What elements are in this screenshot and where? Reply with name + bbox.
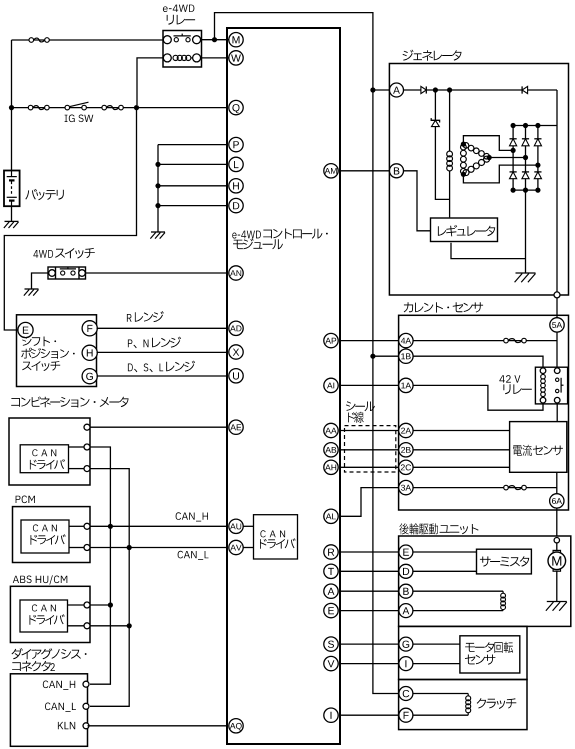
wire F to AD <box>97 327 228 329</box>
terminal rear unit F <box>399 708 413 722</box>
wire AL to 3A <box>340 488 399 517</box>
wire H branch <box>158 185 228 187</box>
wire battery to ground <box>11 206 13 221</box>
terminal rear unit G <box>399 637 413 651</box>
node stator vertex top <box>461 142 466 147</box>
wire A internal <box>404 89 558 91</box>
node bridge mid 1 <box>510 148 515 153</box>
wire module to rear unit V-I <box>340 663 399 665</box>
fuse current sensor F5 <box>504 485 527 490</box>
node gen rotor junction <box>447 87 452 92</box>
label P N range <box>128 337 181 349</box>
wire relay coil to W <box>202 57 229 59</box>
wire 2A internal <box>413 430 510 432</box>
wire stator phase2 to bridge <box>489 157 525 159</box>
wire D branch <box>158 205 228 207</box>
terminal 2B <box>399 443 413 457</box>
wire regulator to ground rail <box>451 243 526 259</box>
label diag CAN_L <box>45 703 76 712</box>
wire AI to 1A <box>340 384 399 386</box>
terminal F shift <box>82 321 97 336</box>
terminal motor feed circle <box>554 538 559 543</box>
wire L branch <box>158 163 228 165</box>
wire generator to 5A <box>556 298 558 318</box>
relay 42V coil <box>541 374 546 396</box>
label clutch <box>477 698 517 709</box>
node ABS CAN-L junction <box>127 623 132 628</box>
label diagnosis line2 <box>12 661 55 672</box>
label generator <box>403 50 462 61</box>
label CAN ABS <box>32 604 56 611</box>
wire A internal rear <box>413 610 503 612</box>
wire module to rear unit S-G <box>340 643 399 645</box>
wire PCM CAN-L stub <box>69 547 84 549</box>
terminal meter CAN-L <box>84 466 90 472</box>
label module line2 <box>233 238 283 249</box>
wire G to U <box>97 375 228 377</box>
terminal rear unit D <box>399 564 413 578</box>
relay 42V contact <box>556 378 564 393</box>
wire module to rear unit T-D <box>340 570 399 572</box>
wire AP to 4A <box>340 340 399 342</box>
shield wire dashed box <box>345 426 396 472</box>
fuse F2 <box>28 105 49 110</box>
label shift line2 <box>21 348 74 359</box>
label module line1 <box>232 229 327 239</box>
relay 42V box <box>535 367 567 404</box>
wire ABS CAN-L stub <box>68 625 85 627</box>
inductor stator coil 3-1 <box>461 144 467 174</box>
wire generator right rail <box>556 90 558 292</box>
label CAN meter <box>32 449 56 456</box>
wire ABS CAN-H to bus <box>90 604 110 606</box>
terminal diag KLN <box>83 723 89 729</box>
regulator box <box>431 218 498 242</box>
terminal module D <box>229 198 243 212</box>
node CAN-H bus junction <box>108 524 113 529</box>
wire motor feed <box>556 543 558 550</box>
label diagnosis line1 <box>12 648 87 659</box>
wire bridge to ground <box>525 190 527 273</box>
wire junction to A terminal <box>373 89 390 91</box>
battery plates <box>7 171 17 207</box>
terminal rear unit I <box>399 657 413 671</box>
terminal module AL <box>324 509 338 523</box>
wire F internal <box>413 714 468 716</box>
label shield line2 <box>348 412 364 423</box>
wire E to thermistor <box>413 551 476 553</box>
motor M brushes <box>553 550 560 571</box>
wire PCM CAN-L to AV <box>90 547 228 549</box>
terminal module Q <box>229 100 243 114</box>
terminal module V <box>324 656 338 670</box>
terminal module AE <box>229 420 243 434</box>
wire 5A rail to relay <box>556 332 558 367</box>
terminal PCM CAN-L <box>84 545 90 551</box>
terminal module AD <box>229 321 243 335</box>
label shield line1 <box>346 401 375 411</box>
terminal generator A <box>390 83 404 97</box>
wire zener branch <box>435 90 449 199</box>
label driver meter <box>30 459 65 469</box>
label current sensor <box>404 302 483 312</box>
relay 42V terminals <box>540 368 560 403</box>
wire PCM CAN-H to AU <box>90 525 228 527</box>
label shift line3 <box>22 361 60 371</box>
terminal 2C <box>399 460 413 474</box>
terminal H shift <box>82 345 97 360</box>
terminal module P <box>229 137 243 151</box>
rear drive unit box middle <box>399 626 527 679</box>
wire G to rotation sensor <box>413 643 460 645</box>
wire ABS CAN-H stub <box>68 604 85 606</box>
terminal module A <box>324 584 338 598</box>
battery box <box>4 171 20 207</box>
label e-4WD relay line2 <box>167 15 195 25</box>
label e-4WD relay line1 <box>163 5 195 12</box>
inductor clutch coil <box>466 694 471 716</box>
terminal 5A <box>550 318 564 332</box>
CAN driver box ABS <box>20 600 68 632</box>
node bridge top 2 <box>523 123 528 128</box>
node 1B junction <box>370 354 375 359</box>
current sensor unit box <box>510 422 567 473</box>
node relay-M junction <box>212 37 217 42</box>
node L junction <box>155 162 160 167</box>
wire bridge bottom bus <box>513 189 538 191</box>
wire AV to CAN driver <box>243 547 253 549</box>
diagnosis connector box <box>10 674 87 747</box>
terminal module AP <box>324 333 338 347</box>
wire KLN to AQ <box>88 725 228 727</box>
wire top link M to generator A <box>215 13 373 88</box>
diode generator D1 <box>421 86 426 93</box>
ground 4WD switch <box>24 289 39 296</box>
ABS box <box>10 586 90 642</box>
terminal module AH <box>324 460 338 474</box>
wire 1A internal <box>413 385 543 410</box>
terminal module I <box>324 708 338 722</box>
ground generator <box>515 273 536 282</box>
relay K1 e-4WD box <box>163 31 202 68</box>
node IG junction to module Q <box>134 105 139 110</box>
wire AU to CAN driver <box>243 525 253 527</box>
inductor rotor field coil <box>447 151 453 171</box>
terminal rear unit B <box>399 584 413 598</box>
label 4WD switch <box>33 248 94 259</box>
wire 1B internal <box>413 356 543 367</box>
wire AB to 2B <box>340 449 399 451</box>
terminal rear unit C <box>399 687 413 701</box>
rear drive unit box upper <box>399 536 571 626</box>
wire motor to ground <box>556 571 558 601</box>
wire ground bus vertical <box>157 145 159 232</box>
motor rotation sensor box <box>460 636 520 673</box>
terminal ABS CAN-H <box>84 602 90 608</box>
label 42V relay line2 <box>503 384 531 394</box>
terminal module T <box>324 564 338 578</box>
node gen zener junction <box>433 87 438 92</box>
switch 4WD contacts <box>49 267 86 277</box>
inductor rear unit winding <box>501 591 506 610</box>
node generator A junction <box>370 87 375 92</box>
terminal module M <box>229 33 243 47</box>
wire 4WD switch to ground <box>32 273 49 289</box>
wire module to rear unit E-A <box>340 610 399 612</box>
terminal module R <box>324 545 338 559</box>
terminal meter CAN-H <box>84 444 90 450</box>
wire rotor branch lower <box>449 171 451 218</box>
label shift line1 <box>22 337 56 347</box>
wire C internal <box>413 693 468 695</box>
wire sensor unit to 6A <box>556 472 558 493</box>
node H junction <box>155 183 160 188</box>
wire AM to B <box>340 170 389 172</box>
relay K1 coil <box>163 54 200 62</box>
wire top feed to relay <box>12 39 164 41</box>
diode zener ZD <box>431 118 439 127</box>
motor M <box>548 552 566 570</box>
node stator vertex right <box>487 155 492 160</box>
terminal PCM CAN-H <box>84 523 90 529</box>
node bridge top 3 <box>535 123 540 128</box>
terminal module L <box>229 157 243 171</box>
terminal module AM <box>324 164 338 178</box>
switch shift position box <box>17 315 97 387</box>
wire meter CAN-L stub <box>69 468 84 470</box>
ground PLHD bus <box>150 232 165 239</box>
switch IG SW contacts <box>65 102 89 110</box>
label R range <box>127 311 164 322</box>
terminal rear unit E <box>399 545 413 559</box>
terminal 4A <box>399 333 413 347</box>
wire meter CAN-H to bus <box>90 447 110 684</box>
wire stator phase3 to bridge <box>463 165 538 183</box>
inductor stator coil 2-3 <box>463 156 490 175</box>
label CAN module <box>260 530 285 537</box>
label current sensor unit <box>513 445 563 456</box>
wire AH to 2C <box>340 466 399 468</box>
node bridge bottom 2 <box>523 188 528 193</box>
label PCM <box>16 496 35 504</box>
wire ABS CAN-L to bus <box>90 625 129 627</box>
wire D to thermistor <box>413 570 476 572</box>
label diag CAN_H <box>43 681 75 690</box>
label D S L range <box>128 361 195 373</box>
CAN driver box meter <box>20 445 68 473</box>
terminal rear unit A <box>399 604 413 618</box>
wire 2B internal <box>413 449 510 451</box>
label driver PCM <box>31 534 66 544</box>
wire B to regulator <box>404 171 431 231</box>
terminal diag CAN-L <box>83 703 89 709</box>
terminal 6A <box>550 494 564 508</box>
terminal module U <box>229 369 243 383</box>
wire 6A to motor <box>556 508 558 536</box>
label ABS <box>13 575 68 584</box>
wire module to rear unit A-B <box>340 590 399 592</box>
CAN driver box PCM <box>21 520 69 553</box>
wire bridge column 1 <box>512 126 514 191</box>
wire rotor branch upper <box>449 90 451 152</box>
rear drive unit box lower <box>399 680 527 730</box>
wire 4A internal <box>413 340 557 342</box>
terminal module AI <box>324 378 338 392</box>
terminal G shift <box>82 369 97 384</box>
wire IG SW row <box>12 107 228 109</box>
PCM box <box>13 507 91 563</box>
inductor stator coil 1-2 <box>463 143 489 159</box>
label thermistor <box>480 556 529 566</box>
diode bridge lower 1 <box>510 172 517 179</box>
label CAN_H <box>176 512 208 521</box>
wire relay coil to IG junction <box>137 58 163 105</box>
terminal module W <box>229 51 243 65</box>
node battery-IG junction <box>9 105 14 110</box>
wire 3A internal <box>413 487 557 489</box>
label rotation sensor line1 <box>465 642 513 653</box>
wire H to X <box>97 351 228 353</box>
wire B internal <box>413 590 503 592</box>
terminal 3A <box>399 480 413 494</box>
node CAN-L bus junction <box>127 545 132 550</box>
diode bridge lower 2 <box>522 172 529 179</box>
wire bridge column 3 <box>537 126 539 191</box>
terminal 1B <box>399 349 413 363</box>
terminal meter AE <box>84 424 90 430</box>
label diag KLN <box>58 722 75 729</box>
current sensor box <box>399 315 569 510</box>
ground motor <box>546 602 567 611</box>
wire module to rear unit R-E <box>340 551 399 553</box>
terminal generator output circle <box>554 292 560 298</box>
wire bridge top bus <box>513 125 557 127</box>
node D junction <box>155 203 160 208</box>
label rear drive unit <box>399 523 478 534</box>
node bridge top 1 <box>510 123 515 128</box>
diode bridge upper 2 <box>522 139 529 146</box>
wire IG junction down to shift E <box>4 108 136 330</box>
node stator vertex bottom <box>461 172 466 177</box>
wire meter CAN-L to bus <box>90 469 129 707</box>
label 42V relay line1 <box>499 375 520 383</box>
wire I to rotation sensor <box>413 663 460 665</box>
label driver module <box>260 538 296 548</box>
node bridge bottom 1 <box>510 188 515 193</box>
thermistor box <box>477 549 532 574</box>
terminal E shift <box>18 322 33 337</box>
terminal module E <box>324 603 338 617</box>
wire long vertical bus to clutch C <box>373 90 400 694</box>
wire meter CAN-H stub <box>69 446 84 448</box>
relay K1 contact <box>163 34 200 44</box>
wire stator phase1 to bridge <box>463 136 513 151</box>
generator box <box>389 64 568 296</box>
fuse current sensor F4 <box>504 338 527 343</box>
wire module to rear unit I-F <box>340 714 399 716</box>
module e-4WD control box <box>227 28 340 744</box>
terminal module H <box>229 179 243 193</box>
terminal module AQ <box>229 719 243 733</box>
ground battery <box>4 221 19 228</box>
diode generator D2 <box>522 86 528 93</box>
fuse F3 <box>102 105 123 110</box>
terminal module AB <box>324 443 338 457</box>
wire bridge column 2 <box>525 126 527 191</box>
terminal module AU <box>229 519 243 533</box>
wire PCM CAN-H stub <box>69 525 84 527</box>
label driver ABS <box>30 614 65 624</box>
node bridge mid 2 <box>523 155 528 160</box>
wire relay contact to M <box>202 39 229 41</box>
label IG SW <box>65 115 94 123</box>
wire P to ground bus <box>158 144 228 146</box>
wire AA to 2A <box>340 430 399 432</box>
terminal diag CAN-H <box>83 681 89 687</box>
terminal 1A <box>399 378 413 392</box>
wire 1B to bus <box>373 355 399 357</box>
wire meter to AE <box>90 426 228 428</box>
terminal 2A <box>399 423 413 437</box>
terminal generator B <box>390 164 404 178</box>
diode bridge upper 1 <box>510 139 517 146</box>
terminal module AV <box>229 540 243 554</box>
CAN driver box module <box>254 515 298 559</box>
node bridge bottom 3 <box>535 188 540 193</box>
label combination meter <box>11 397 128 408</box>
terminal ABS CAN-L <box>84 623 90 629</box>
label regulator <box>438 225 495 237</box>
node ABS CAN-H junction <box>108 602 113 607</box>
terminal module X <box>229 345 243 359</box>
node bridge mid 3 <box>535 163 540 168</box>
diode bridge upper 3 <box>534 139 541 146</box>
label CAN_L <box>178 551 209 560</box>
wire 42V relay to sensor unit <box>556 404 558 422</box>
combination meter box <box>9 418 90 485</box>
fuse F1 main <box>29 38 49 43</box>
switch 4WD box <box>48 267 86 279</box>
label rotation sensor line2 <box>465 655 496 665</box>
diode bridge lower 3 <box>534 172 541 179</box>
wire 2C internal <box>413 466 510 468</box>
terminal module AA <box>324 423 338 437</box>
wire battery positive vertical <box>11 40 13 171</box>
wire 4WD switch to AN <box>86 272 228 274</box>
label battery <box>25 189 64 200</box>
terminal module AN <box>229 266 243 280</box>
terminal module S <box>324 637 338 651</box>
label CAN PCM <box>33 524 57 531</box>
